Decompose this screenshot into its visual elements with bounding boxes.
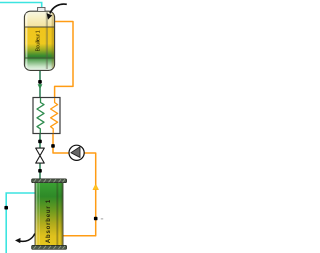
wire: green liquid line vessel bottom to exchanger <box>39 70 41 99</box>
flow arrow green <box>38 84 43 89</box>
valve V1 <box>36 148 45 163</box>
junction dot <box>38 80 42 84</box>
coil green (cold side) <box>37 98 44 133</box>
weld line bottom <box>25 57 55 59</box>
value label tick <box>101 218 103 219</box>
heat exchanger E1 box <box>33 98 60 134</box>
junction dot <box>38 169 42 173</box>
wire: orange line pump to absorber bottom <box>63 153 96 236</box>
wire: cyan water line to absorber <box>6 193 35 253</box>
wire: orange vapor line vessel top to exchanger <box>54 22 73 99</box>
junction dot <box>51 144 55 148</box>
body <box>35 181 63 247</box>
junction dot <box>38 140 42 144</box>
wire: cyan feed line top <box>0 3 42 8</box>
wire: green line exchanger to valve <box>39 133 41 148</box>
flange bottom <box>32 245 67 249</box>
weld line top <box>25 26 55 28</box>
absorber column Absorbeur 1 <box>32 179 67 249</box>
nozzle nub <box>38 7 45 11</box>
svg-text:Absorbeur 1: Absorbeur 1 <box>46 199 52 243</box>
flow arrow gold <box>93 184 99 190</box>
arrow out of absorber bottom <box>15 234 35 244</box>
flange top <box>32 179 67 183</box>
junction dot <box>94 217 98 221</box>
wire: green line valve to absorber <box>39 163 41 180</box>
wire: orange line exchanger to pump <box>53 133 69 153</box>
vessel Bouilleur 1 <box>24 7 54 70</box>
pump P1 <box>69 145 84 160</box>
arrow into vessel top <box>47 4 67 20</box>
coil orange (hot side) <box>51 98 58 133</box>
svg-text:Bouilleur 1: Bouilleur 1 <box>35 30 41 51</box>
junction dot <box>4 206 8 210</box>
